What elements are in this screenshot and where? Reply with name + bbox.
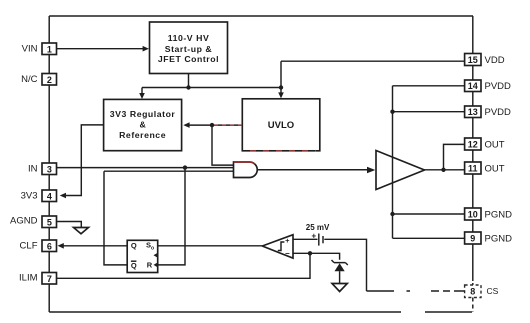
svg-text:VIN: VIN [22,44,38,55]
svg-text:14: 14 [468,81,478,91]
svg-text:6: 6 [47,241,52,251]
svg-text:3V3 Regulator: 3V3 Regulator [110,109,176,119]
svg-text:Reference: Reference [119,130,166,140]
svg-text:+: + [285,236,290,245]
svg-text:OUT: OUT [485,139,505,150]
svg-text:9: 9 [470,233,475,243]
svg-text:2: 2 [47,75,52,85]
svg-text:OUT: OUT [485,163,505,174]
svg-text:CS: CS [487,286,499,296]
svg-text:PGND: PGND [485,233,513,244]
svg-text:PVDD: PVDD [485,81,512,92]
svg-text:Start-up &: Start-up & [165,44,213,54]
svg-text:N/C: N/C [21,74,38,85]
svg-text:R: R [147,261,153,270]
svg-text:3: 3 [47,164,52,174]
svg-text:ILIM: ILIM [19,273,38,284]
svg-text:PVDD: PVDD [485,107,512,118]
svg-text:10: 10 [468,209,478,219]
svg-text:IN: IN [28,164,38,175]
svg-text:CLF: CLF [20,241,38,252]
svg-text:UVLO: UVLO [268,120,294,131]
svg-text:JFET Control: JFET Control [158,54,219,64]
svg-text:Q: Q [131,261,137,270]
svg-text:7: 7 [47,274,52,284]
svg-text:15: 15 [468,55,478,65]
svg-text:−: − [285,249,290,258]
svg-text:VDD: VDD [485,55,505,66]
svg-text:8: 8 [470,287,475,297]
svg-text:1: 1 [47,44,52,54]
svg-text:110-V HV: 110-V HV [168,33,210,43]
svg-text:4: 4 [47,191,52,201]
svg-text:o: o [151,245,154,251]
svg-text:+: + [312,232,317,241]
svg-text:AGND: AGND [10,215,38,226]
svg-text:PGND: PGND [485,209,513,220]
svg-text:25 mV: 25 mV [306,223,330,232]
svg-text:12: 12 [468,139,478,149]
svg-text:13: 13 [468,107,478,117]
svg-text:5: 5 [47,217,52,227]
svg-text:Q: Q [131,241,137,250]
svg-text:11: 11 [468,163,478,173]
svg-text:&: & [139,120,145,130]
svg-text:3V3: 3V3 [21,191,38,202]
